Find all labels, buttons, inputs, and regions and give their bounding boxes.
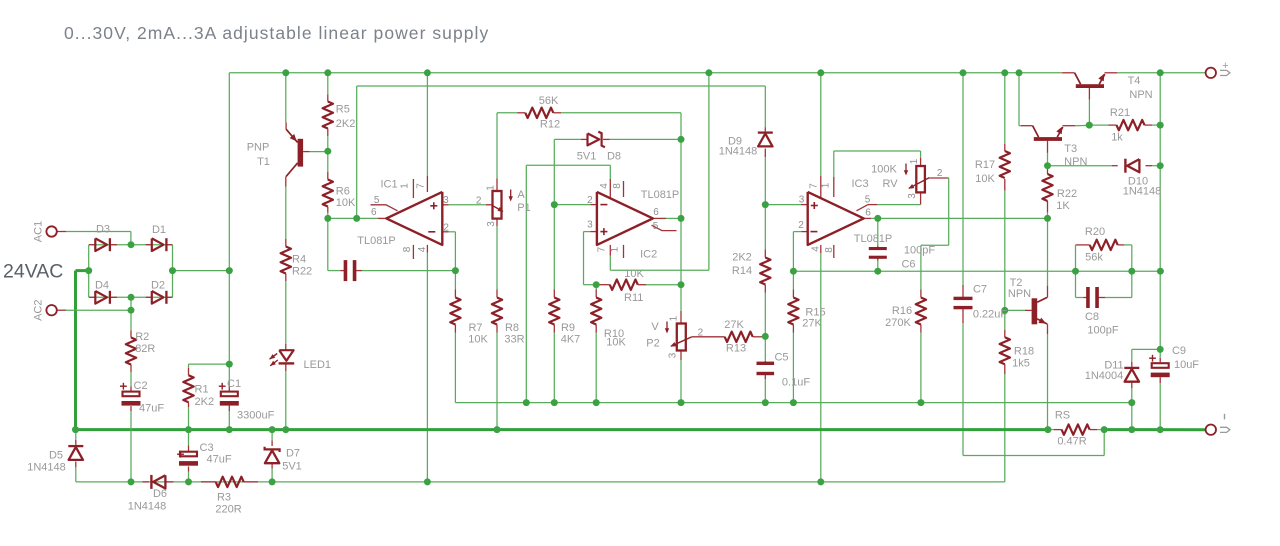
svg-text:LED1: LED1 (304, 359, 332, 371)
svg-text:D3: D3 (96, 223, 110, 235)
svg-text:D4: D4 (95, 279, 109, 291)
svg-text:D8: D8 (607, 151, 621, 163)
svg-text:47uF: 47uF (139, 403, 164, 415)
svg-text:3: 3 (486, 221, 497, 227)
svg-text:10uF: 10uF (1174, 359, 1199, 371)
svg-text:5: 5 (865, 194, 871, 205)
svg-text:2: 2 (698, 327, 704, 338)
svg-text:2: 2 (587, 195, 593, 206)
svg-text:3300uF: 3300uF (237, 410, 275, 422)
svg-text:10K: 10K (606, 336, 626, 348)
svg-text:7: 7 (597, 246, 608, 252)
svg-text:R5: R5 (336, 103, 350, 115)
svg-text:1: 1 (399, 183, 410, 189)
svg-text:6: 6 (865, 208, 871, 219)
svg-text:R1: R1 (195, 384, 209, 396)
svg-text:0.22uF: 0.22uF (973, 309, 1008, 321)
svg-text:TL081P: TL081P (641, 189, 680, 201)
svg-text:82R: 82R (135, 343, 155, 355)
svg-text:1N4148: 1N4148 (128, 501, 167, 513)
svg-text:33R: 33R (504, 334, 524, 346)
svg-text:0.1uF: 0.1uF (782, 377, 810, 389)
svg-text:TL081P: TL081P (357, 235, 396, 247)
svg-text:100pF: 100pF (1087, 324, 1118, 336)
svg-text:C6: C6 (901, 259, 915, 271)
svg-text:R3: R3 (217, 492, 231, 504)
svg-text:T3: T3 (1064, 143, 1077, 155)
svg-text:C1: C1 (227, 378, 241, 390)
svg-text:NPN: NPN (1129, 89, 1152, 101)
svg-text:R13: R13 (726, 342, 746, 354)
svg-text:IC2: IC2 (640, 248, 657, 260)
svg-text:NPN: NPN (1064, 156, 1087, 168)
svg-text:A: A (517, 189, 525, 201)
svg-text:0.47R: 0.47R (1057, 435, 1086, 447)
svg-text:7: 7 (415, 183, 426, 189)
svg-text:P1: P1 (517, 202, 530, 214)
svg-text:R21: R21 (1110, 107, 1130, 119)
svg-text:C8: C8 (1085, 311, 1099, 323)
svg-text:4K7: 4K7 (561, 334, 581, 346)
svg-text:4: 4 (811, 246, 822, 252)
svg-text:10K: 10K (468, 334, 488, 346)
svg-text:R22: R22 (292, 266, 312, 278)
svg-text:1: 1 (610, 246, 621, 252)
svg-text:100pF: 100pF (904, 245, 935, 257)
svg-text:220R: 220R (215, 504, 241, 516)
svg-text:1k5: 1k5 (1012, 357, 1030, 369)
svg-text:R12: R12 (540, 119, 560, 131)
svg-text:1: 1 (821, 182, 832, 188)
svg-text:R11: R11 (624, 292, 643, 304)
svg-text:R8: R8 (505, 322, 519, 334)
svg-text:3: 3 (799, 195, 805, 206)
svg-text:D6: D6 (153, 488, 167, 500)
svg-text:3: 3 (587, 220, 593, 231)
svg-text:R15: R15 (805, 306, 825, 318)
svg-text:2: 2 (476, 195, 482, 206)
svg-text:R9: R9 (561, 322, 575, 334)
svg-text:V: V (651, 321, 659, 333)
svg-text:1: 1 (485, 185, 496, 191)
svg-text:TL081P: TL081P (854, 233, 893, 245)
svg-text:10K: 10K (336, 197, 356, 209)
svg-text:1N4004: 1N4004 (1085, 370, 1124, 382)
svg-text:3: 3 (907, 193, 918, 199)
svg-text:24VAC: 24VAC (3, 261, 63, 283)
svg-text:IC3: IC3 (851, 178, 868, 190)
svg-text:NPN: NPN (1008, 288, 1031, 300)
svg-text:1N4148: 1N4148 (27, 462, 66, 474)
svg-text:6: 6 (653, 207, 659, 218)
svg-text:T1: T1 (257, 156, 270, 168)
svg-text:R20: R20 (1085, 226, 1105, 238)
svg-text:2: 2 (443, 222, 449, 233)
svg-text:R7: R7 (468, 322, 482, 334)
svg-text:2K2: 2K2 (732, 252, 752, 264)
svg-text:10K: 10K (975, 173, 995, 185)
svg-text:IC1: IC1 (380, 179, 397, 191)
svg-text:T4: T4 (1128, 75, 1141, 87)
svg-text:1N4148: 1N4148 (719, 146, 758, 158)
svg-text:47uF: 47uF (207, 453, 232, 465)
svg-text:AC1: AC1 (33, 221, 45, 242)
svg-text:27K: 27K (724, 319, 744, 331)
svg-text:8: 8 (402, 246, 413, 252)
svg-text:P2: P2 (646, 338, 659, 350)
svg-text:5: 5 (374, 195, 380, 206)
svg-text:D1: D1 (152, 224, 166, 236)
svg-text:27K: 27K (802, 318, 822, 330)
svg-text:1N4148: 1N4148 (1123, 186, 1162, 198)
svg-text:8: 8 (824, 247, 835, 253)
svg-text:R2: R2 (135, 331, 149, 343)
svg-text:56k: 56k (1085, 252, 1103, 264)
svg-text:10K: 10K (624, 268, 644, 280)
svg-text:R18: R18 (1014, 345, 1034, 357)
svg-text:6: 6 (371, 207, 377, 218)
svg-text:5: 5 (653, 221, 659, 232)
svg-text:RV: RV (882, 178, 898, 190)
svg-text:C9: C9 (1172, 345, 1186, 357)
svg-text:R16: R16 (892, 305, 912, 317)
svg-text:D2: D2 (151, 279, 165, 291)
svg-text:1: 1 (668, 315, 679, 321)
svg-text:2K2: 2K2 (195, 396, 215, 408)
svg-text:C5: C5 (774, 352, 788, 364)
svg-text:3: 3 (443, 195, 449, 206)
svg-text:RS: RS (1055, 410, 1070, 422)
svg-text:2: 2 (798, 220, 804, 231)
svg-text:R4: R4 (292, 253, 306, 265)
svg-text:C2: C2 (134, 380, 148, 392)
svg-text:D7: D7 (286, 448, 300, 460)
svg-text:100K: 100K (871, 164, 897, 176)
svg-text:R17: R17 (975, 159, 995, 171)
svg-text:8: 8 (612, 183, 623, 189)
svg-text:0...30V, 2mA...3A adjustable l: 0...30V, 2mA...3A adjustable linear powe… (64, 23, 489, 43)
svg-text:5V1: 5V1 (282, 461, 302, 473)
svg-text:1: 1 (909, 158, 920, 164)
svg-text:1k: 1k (1111, 132, 1123, 144)
svg-text:R22: R22 (1057, 188, 1077, 200)
svg-text:AC2: AC2 (33, 299, 45, 320)
svg-text:4: 4 (417, 246, 428, 252)
svg-text:C7: C7 (973, 284, 987, 296)
svg-text:3: 3 (667, 352, 678, 358)
svg-text:270K: 270K (885, 317, 911, 329)
svg-text:1K: 1K (1056, 200, 1070, 212)
svg-text:R14: R14 (732, 265, 752, 277)
svg-text:56K: 56K (539, 95, 559, 107)
svg-text:2K2: 2K2 (336, 118, 356, 130)
svg-text:R6: R6 (336, 186, 350, 198)
svg-text:2: 2 (937, 168, 943, 179)
svg-text:5V1: 5V1 (577, 151, 597, 163)
svg-text:7: 7 (809, 183, 820, 189)
svg-text:+: + (1222, 60, 1228, 72)
svg-text:4: 4 (599, 183, 610, 189)
svg-text:D5: D5 (49, 450, 63, 462)
svg-text:PNP: PNP (247, 142, 270, 154)
